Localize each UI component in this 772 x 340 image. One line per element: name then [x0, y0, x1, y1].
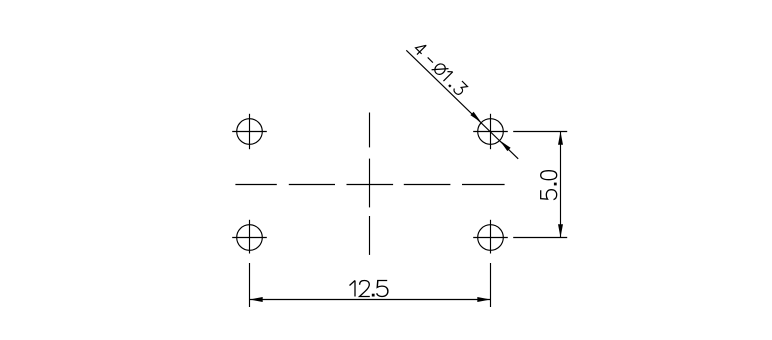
arrowhead dimension 12.5 left [250, 297, 263, 302]
hole H3 (bottom-left) circle [237, 225, 263, 251]
horizontal centerline dash 5 [462, 184, 505, 186]
hole H3 center mark vertical [249, 220, 251, 254]
dimension 5.0 extension line bottom [513, 237, 567, 239]
hole H3 center mark horizontal [232, 237, 267, 239]
hole H4 center mark vertical [490, 220, 492, 254]
horizontal centerline dash 2 [289, 184, 335, 186]
hole H1 (top-left) circle [237, 119, 263, 145]
hole H2 center mark vertical [490, 114, 492, 149]
hole H1 center mark horizontal [232, 131, 267, 133]
dimension 5.0 extension line top [513, 131, 567, 133]
horizontal centerline dash 4 [404, 184, 451, 186]
text 4-Ø1.3 (rotated 45, along leader) [413, 41, 468, 96]
arrowhead dimension 12.5 right [477, 297, 490, 302]
dimension 5.0 dimension line [560, 132, 562, 238]
arrowhead dimension 5.0 top [558, 132, 563, 145]
dimension 12.5 extension line left [249, 263, 251, 307]
arrowhead dimension 5.0 bottom [558, 224, 563, 237]
vertical centerline dash 2 (center) [369, 159, 371, 208]
text 5.0 (rotated 90 CCW) [541, 171, 557, 200]
dimension 12.5 extension line right [490, 263, 492, 307]
arrowhead leader lower (points at hole edge) [500, 140, 511, 151]
vertical centerline dash 1 [369, 113, 371, 148]
dimension 12.5 dimension line [250, 299, 491, 301]
text 12.5 [350, 281, 388, 297]
hole H1 center mark vertical [249, 114, 251, 149]
arrowhead leader upper (points at hole edge) [470, 112, 481, 123]
leader line for 4-Ø1.3 [406, 50, 518, 159]
horizontal centerline dash 1 [235, 184, 276, 186]
hole H4 center mark horizontal [473, 237, 508, 239]
vertical centerline dash 3 [369, 216, 371, 255]
hole H4 (bottom-right) circle [478, 225, 504, 251]
horizontal centerline dash 3 (center) [347, 184, 394, 186]
hole H2 center mark horizontal [473, 131, 508, 133]
hole H2 (top-right) circle [478, 119, 504, 145]
